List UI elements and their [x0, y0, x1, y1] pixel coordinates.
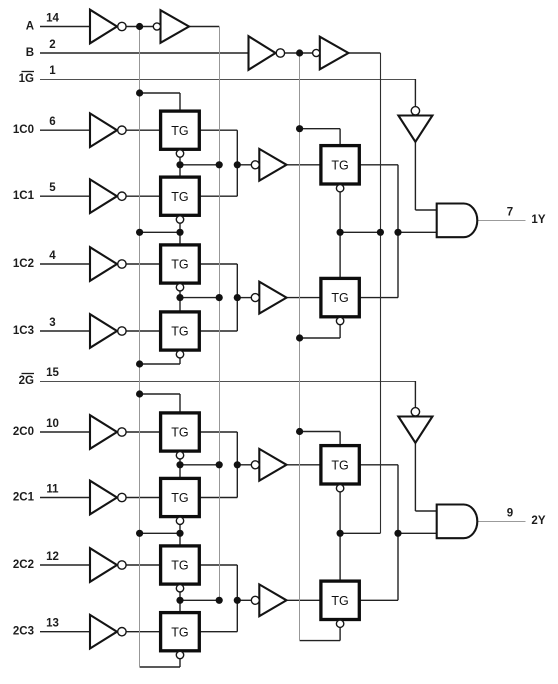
svg-text:1Y: 1Y [531, 214, 545, 226]
svg-text:1C0: 1C0 [13, 124, 34, 136]
svg-text:TG: TG [171, 258, 188, 272]
svg-text:2C2: 2C2 [13, 559, 34, 571]
svg-text:TG: TG [171, 625, 188, 639]
svg-text:TG: TG [171, 491, 188, 505]
svg-text:TG: TG [331, 158, 348, 172]
svg-text:1: 1 [49, 65, 56, 77]
svg-text:11: 11 [46, 484, 59, 496]
svg-text:TG: TG [171, 559, 188, 573]
svg-text:2C1: 2C1 [13, 491, 35, 503]
svg-text:9: 9 [507, 507, 513, 519]
svg-text:2Y: 2Y [531, 515, 545, 527]
svg-text:10: 10 [46, 418, 59, 430]
svg-text:5: 5 [49, 182, 56, 194]
svg-text:2G: 2G [19, 375, 34, 387]
svg-text:TG: TG [171, 325, 188, 339]
svg-text:2C0: 2C0 [13, 426, 34, 438]
svg-text:3: 3 [49, 317, 55, 329]
svg-text:1C2: 1C2 [13, 258, 34, 270]
svg-text:TG: TG [331, 291, 348, 305]
svg-text:2C3: 2C3 [13, 626, 34, 638]
svg-text:7: 7 [507, 206, 513, 218]
svg-text:14: 14 [46, 13, 59, 25]
svg-text:B: B [26, 47, 34, 59]
svg-text:TG: TG [171, 124, 188, 138]
svg-text:1C1: 1C1 [13, 190, 35, 202]
svg-text:2: 2 [49, 39, 55, 51]
svg-text:TG: TG [171, 426, 188, 440]
svg-text:4: 4 [49, 250, 56, 262]
svg-text:TG: TG [331, 458, 348, 472]
svg-text:12: 12 [46, 551, 59, 563]
svg-text:6: 6 [49, 116, 55, 128]
svg-text:1C3: 1C3 [13, 325, 34, 337]
svg-text:TG: TG [171, 190, 188, 204]
svg-text:15: 15 [46, 367, 59, 379]
svg-text:TG: TG [331, 594, 348, 608]
svg-text:A: A [26, 20, 34, 32]
svg-text:13: 13 [46, 618, 59, 630]
svg-text:1G: 1G [19, 73, 34, 85]
